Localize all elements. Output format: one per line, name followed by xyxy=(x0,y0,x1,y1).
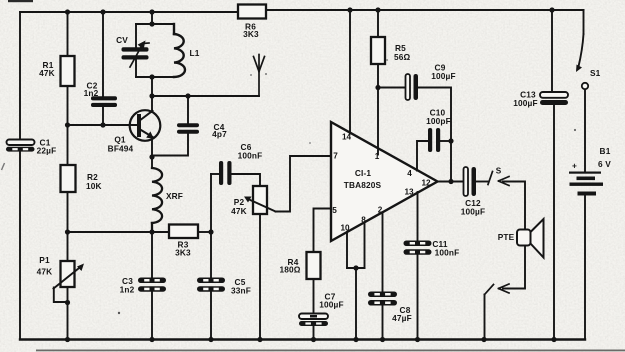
svg-text:1n2: 1n2 xyxy=(84,88,99,98)
wire tank top stem xyxy=(151,12,153,24)
switch S1 xyxy=(576,10,588,89)
wire C4 bottom to emitter xyxy=(152,134,188,156)
svg-text:P1: P1 xyxy=(39,255,50,265)
wire C12 right stub xyxy=(476,181,488,183)
inductor XRF xyxy=(152,168,162,232)
svg-text:CI-1: CI-1 xyxy=(355,168,372,178)
junction ground P1 xyxy=(65,337,70,342)
junction ground C5 xyxy=(208,337,213,342)
capacitor C9 xyxy=(406,74,419,100)
pin 1 xyxy=(375,152,380,161)
svg-text:100µF: 100µF xyxy=(461,207,485,217)
junction tank top xyxy=(149,21,154,26)
label C12 100uF xyxy=(461,198,485,217)
label C4 4p7 xyxy=(212,122,227,139)
label C11 100nF xyxy=(432,239,459,258)
wire C11 bottom stem xyxy=(417,255,419,340)
wire S1 to battery xyxy=(584,90,586,173)
wire emitter stem xyxy=(151,138,153,168)
svg-text:100µF: 100µF xyxy=(431,71,455,81)
junction top rail pin14 xyxy=(347,7,352,12)
label Q1 BF494 xyxy=(108,135,134,154)
label C10 100pF xyxy=(426,108,451,127)
pin 4 xyxy=(407,169,412,178)
wire C2 top stem xyxy=(102,12,104,97)
capacitor C1 xyxy=(6,140,35,152)
wire plug to speaker top xyxy=(503,182,525,230)
svg-text:10K: 10K xyxy=(86,181,102,191)
svg-text:56Ω: 56Ω xyxy=(394,52,411,62)
junction collector node xyxy=(149,93,154,98)
wire collector stem xyxy=(151,96,153,112)
junction ground C7 xyxy=(311,337,316,342)
svg-text:22µF: 22µF xyxy=(37,146,57,156)
svg-text:100nF: 100nF xyxy=(435,248,460,258)
connector plug S top xyxy=(488,172,509,186)
capacitor C13 xyxy=(540,92,568,105)
wire R2 bottom stem xyxy=(67,192,69,232)
junction pin10 pin8 xyxy=(353,265,358,270)
capacitor C5 xyxy=(197,232,225,340)
wire volume node vertical xyxy=(210,174,212,232)
capacitor C8 xyxy=(368,292,397,306)
junction C4 top node xyxy=(185,93,190,98)
resistor R6 xyxy=(238,5,266,19)
wire pin10 pin8 join xyxy=(347,267,365,269)
svg-text:33nF: 33nF xyxy=(231,286,251,296)
resistor R4 xyxy=(307,252,321,279)
wire C6 right to P2 xyxy=(232,174,261,186)
wire R1 top stem xyxy=(67,12,69,56)
wire top rail right xyxy=(265,9,584,11)
wire CV top branch xyxy=(135,24,137,47)
label P2 47K xyxy=(231,197,247,216)
svg-text:TBA820S: TBA820S xyxy=(344,180,382,190)
pin 2 xyxy=(378,206,383,215)
pin 14 xyxy=(342,133,352,142)
svg-text:180Ω: 180Ω xyxy=(279,265,300,275)
wire C4 top stem xyxy=(187,96,189,124)
svg-text:6 V: 6 V xyxy=(598,159,611,169)
label C13 100uF xyxy=(513,90,537,109)
svg-text:47µF: 47µF xyxy=(392,313,412,323)
wire pin14 supply stem xyxy=(349,10,351,134)
wire R5 bottom to pin1 xyxy=(377,64,379,155)
wire left supply rail upper xyxy=(19,12,21,140)
wire left supply rail lower xyxy=(19,152,21,340)
label C3 1n2 xyxy=(120,276,135,295)
svg-text:7: 7 xyxy=(333,152,338,161)
svg-text:12: 12 xyxy=(421,179,431,188)
label R4 180ohm xyxy=(279,257,300,275)
capacitor C3 xyxy=(138,232,166,340)
label C5 33nF xyxy=(231,277,251,296)
junction output node xyxy=(448,179,453,184)
inductor L1 xyxy=(174,24,185,77)
label R2 10K xyxy=(86,172,102,191)
svg-text:100µF: 100µF xyxy=(319,300,343,310)
capacitor CV xyxy=(122,47,149,59)
wire speaker bottom return xyxy=(503,246,525,289)
resistor R3 xyxy=(169,225,198,239)
junction ground C13 xyxy=(551,337,556,342)
wire C10 right stem xyxy=(440,140,451,142)
label C8 47uF xyxy=(392,305,412,323)
resistor R1 xyxy=(61,56,75,86)
label R1 47K xyxy=(39,60,55,78)
wire R1 bottom to base node xyxy=(67,86,69,125)
wire P2 wiper to pin7 xyxy=(276,156,332,212)
pin 5 xyxy=(332,206,337,215)
battery B1 xyxy=(569,172,603,196)
wire emitter bias node xyxy=(68,231,170,233)
label C2 1n2 xyxy=(84,81,99,99)
svg-text:47K: 47K xyxy=(231,206,247,216)
speaker PTE xyxy=(517,219,544,258)
svg-text:+: + xyxy=(572,161,577,171)
svg-text:BF494: BF494 xyxy=(108,144,134,154)
svg-text:47K: 47K xyxy=(37,267,53,277)
label PTE xyxy=(498,232,515,242)
op-amp U1 CI-1 TBA820S xyxy=(331,122,438,241)
label R5 56ohm xyxy=(394,43,411,62)
pin 8 xyxy=(361,216,366,225)
junction bias node P1 xyxy=(65,229,70,234)
pin 10 xyxy=(340,224,350,233)
junction ground C3 xyxy=(149,337,154,342)
svg-text:4: 4 xyxy=(407,169,412,178)
wire P2 bottom stem xyxy=(259,214,261,340)
wire pin13 to C11 xyxy=(417,192,419,241)
wire C2 bottom stem xyxy=(102,107,104,125)
svg-text:100µF: 100µF xyxy=(513,98,537,108)
transistor Q1 xyxy=(130,110,161,141)
svg-text:5: 5 xyxy=(332,206,337,215)
pin 12 xyxy=(421,179,431,188)
svg-text:4p7: 4p7 xyxy=(212,129,227,139)
svg-text:47K: 47K xyxy=(39,68,55,78)
wire output to C12 xyxy=(438,181,465,183)
junction top rail R5 xyxy=(375,7,380,12)
pin 7 xyxy=(333,152,338,161)
capacitor C10 xyxy=(428,128,440,152)
wire ground rail xyxy=(20,338,585,340)
svg-text:B1: B1 xyxy=(600,146,611,156)
wire plug bottom to ground xyxy=(484,295,486,340)
wire base node xyxy=(68,124,138,126)
wire R4 bottom stem xyxy=(313,279,315,314)
label B1 6V xyxy=(598,146,611,169)
svg-text:10: 10 xyxy=(340,224,350,233)
wire R2 top stem xyxy=(67,125,69,165)
wire C9 right to output node xyxy=(418,88,451,182)
wire CV bottom branch xyxy=(135,60,137,78)
wire tank bottom stem xyxy=(151,77,153,96)
label C9 100uF xyxy=(431,63,455,82)
wire top rail left xyxy=(20,11,238,13)
wire pin8 stem xyxy=(364,222,366,268)
label S1 xyxy=(590,68,601,78)
capacitor C12 xyxy=(464,167,477,196)
wire tank bottom bar xyxy=(136,76,174,78)
capacitor C6 xyxy=(219,161,232,185)
svg-text:1n2: 1n2 xyxy=(120,285,135,295)
label S xyxy=(496,167,502,176)
svg-text:PTE: PTE xyxy=(498,232,515,242)
wire pin2 to C8 xyxy=(382,212,384,291)
junction top rail C2 xyxy=(100,9,105,14)
potentiometer P1 xyxy=(54,232,85,302)
capacitor C4 xyxy=(177,123,199,133)
svg-text:XRF: XRF xyxy=(166,191,183,201)
junction C9 node xyxy=(375,85,380,90)
junction bias node XRF xyxy=(149,229,154,234)
svg-text:CV: CV xyxy=(116,35,128,45)
wire C13 bottom to ground xyxy=(553,106,555,340)
junction top rail tank xyxy=(149,9,154,14)
resistor R5 xyxy=(371,37,385,64)
junction tank bottom xyxy=(149,74,154,79)
label L1 xyxy=(190,48,200,58)
wire pin5 to R4 xyxy=(314,209,332,253)
label CI-1 TBA820S xyxy=(344,168,382,190)
junction ground pin8 xyxy=(353,337,358,342)
junction C10 output xyxy=(448,138,453,143)
junction base R1R2 xyxy=(65,122,70,127)
label R3 3K3 xyxy=(175,240,191,258)
svg-text:3K3: 3K3 xyxy=(175,248,191,258)
junction emitter node xyxy=(149,154,154,159)
label P1 47K xyxy=(37,255,53,277)
wire join to ground xyxy=(355,268,357,340)
connector plug bottom xyxy=(485,284,510,295)
svg-text:13: 13 xyxy=(404,188,414,197)
junction base C2 xyxy=(100,122,105,127)
wire C13 top stem xyxy=(551,10,553,92)
junction P1 wiper tie xyxy=(65,300,70,305)
label C1 22uF xyxy=(37,138,57,156)
label C6 100nF xyxy=(238,142,263,161)
wire pin10 stem xyxy=(346,232,348,268)
svg-text:S: S xyxy=(496,167,502,176)
wire R5 top stem xyxy=(377,10,379,37)
wire P1 bottom stem xyxy=(67,287,69,340)
label battery plus xyxy=(572,161,577,171)
resistor R2 xyxy=(61,165,76,192)
junction ground C8 xyxy=(380,337,385,342)
capacitor C11 xyxy=(404,241,432,255)
wire battery to ground xyxy=(584,197,586,340)
wire C6 left stem xyxy=(211,173,219,175)
junction R3 C5 node xyxy=(208,229,213,234)
wire C8 bottom stem xyxy=(382,306,384,340)
antenna xyxy=(254,55,265,97)
label CV xyxy=(116,35,128,45)
capacitor C7 xyxy=(299,314,328,327)
junction ground C11 xyxy=(415,337,420,342)
wire tank top bar xyxy=(136,23,174,25)
label XRF xyxy=(166,191,183,201)
svg-text:S1: S1 xyxy=(590,68,601,78)
svg-text:L1: L1 xyxy=(190,48,200,58)
junction top rail C13 xyxy=(549,7,554,12)
junction ground speaker return xyxy=(481,337,486,342)
junction top rail R1 xyxy=(65,9,70,14)
arrow CV adjustable xyxy=(130,41,149,68)
wire collector node horizontal xyxy=(152,95,259,97)
wire C7 bottom stem xyxy=(313,326,315,340)
svg-text:100nF: 100nF xyxy=(238,151,263,161)
label C7 100uF xyxy=(319,292,343,310)
wire C9 left stem xyxy=(378,87,406,89)
potentiometer P2 xyxy=(244,186,276,214)
pin 13 xyxy=(404,188,414,197)
svg-text:100pF: 100pF xyxy=(426,116,451,126)
svg-text:3K3: 3K3 xyxy=(243,29,259,39)
label R6 3K3 xyxy=(243,22,259,40)
wire pin4 to C10 xyxy=(417,141,428,171)
junction ground P2 xyxy=(257,337,262,342)
capacitor C2 xyxy=(91,96,117,107)
wire R3 right xyxy=(198,231,211,233)
